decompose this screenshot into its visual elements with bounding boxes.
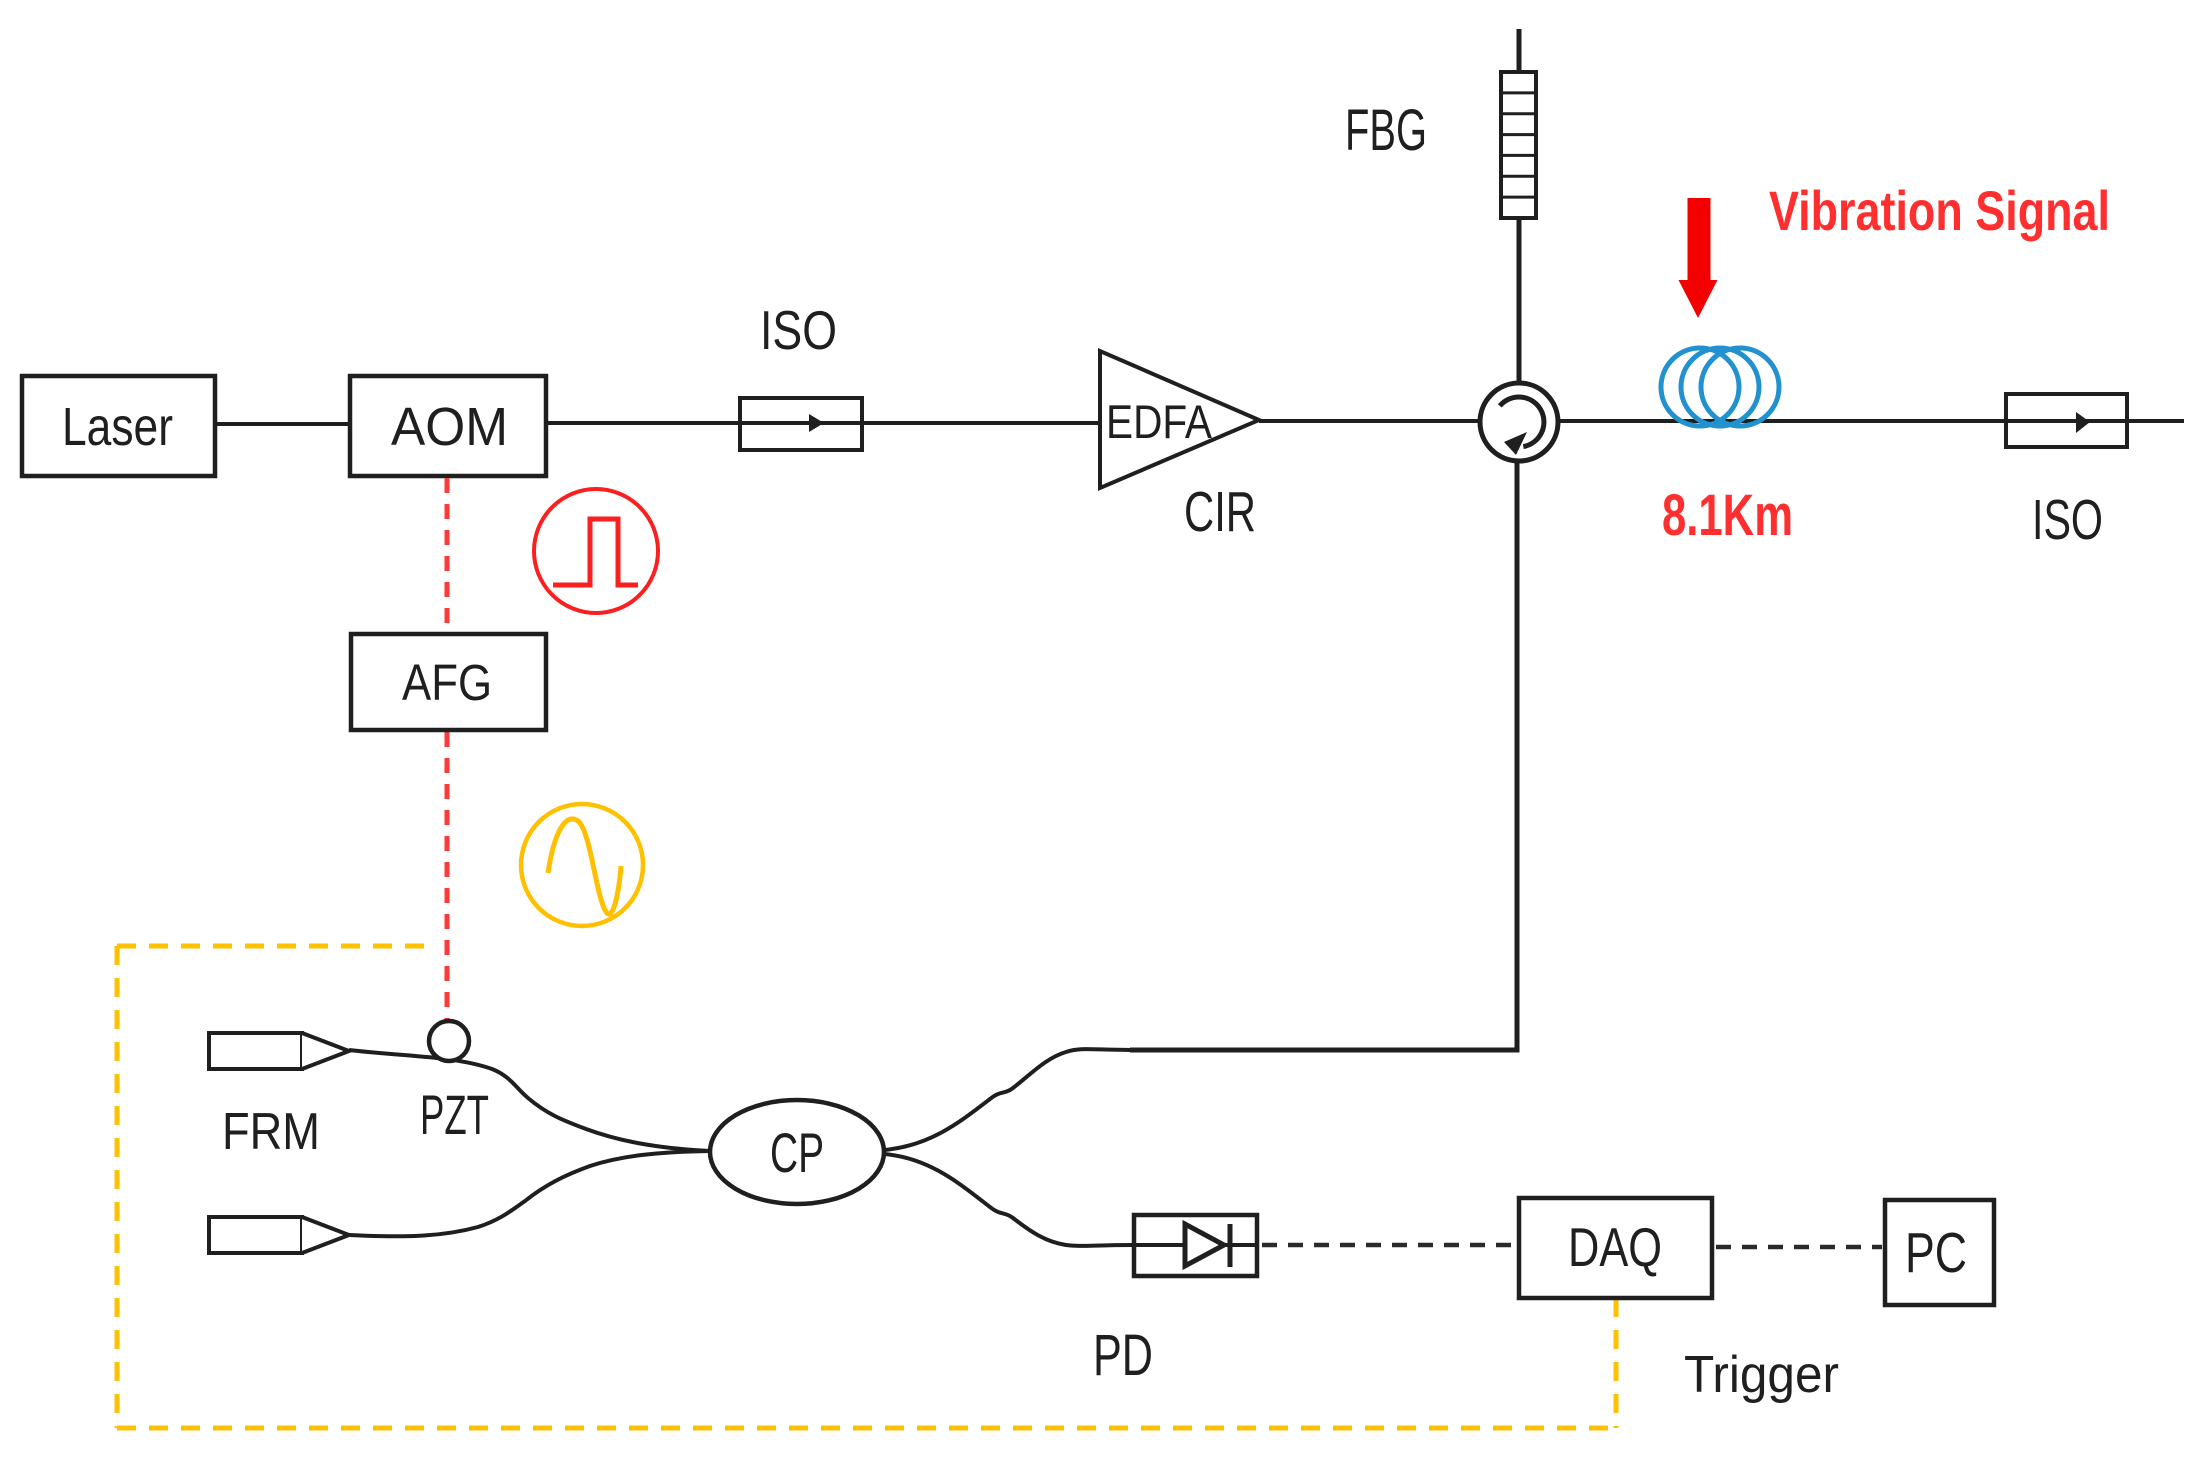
- vibration signal red arrow: [1679, 198, 1718, 318]
- red dashed control line AOM to AFG: [445, 478, 450, 632]
- svg-text:DAQ: DAQ: [1568, 1216, 1662, 1278]
- svg-text:AOM: AOM: [391, 397, 508, 457]
- yellow dashed trigger line DAQ down: [1614, 1298, 1619, 1428]
- black dashed DAQ to PC: [1716, 1245, 1882, 1250]
- svg-text:Vibration Signal: Vibration Signal: [1769, 179, 2110, 242]
- DAQ box: [1519, 1198, 1712, 1298]
- PZT circle on fiber: [429, 1021, 469, 1061]
- svg-text:Laser: Laser: [62, 397, 173, 457]
- sine wave symbol circle (yellow): [521, 804, 643, 926]
- coupler CP ellipse: [710, 1100, 884, 1204]
- fiber upper arm FRM to CP: [349, 1050, 710, 1151]
- wire circulator down to coupler branch: [1130, 460, 1517, 1050]
- arrow inside right ISO: [2076, 412, 2090, 433]
- svg-text:FBG: FBG: [1345, 98, 1427, 163]
- black dashed PD to DAQ: [1262, 1243, 1515, 1248]
- AOM box: [350, 376, 546, 476]
- yellow dashed feedback box left edge: [115, 946, 120, 1428]
- wire AOM to ISO: [546, 421, 741, 425]
- fiber coil (blue): [1661, 348, 1779, 426]
- wire top of FBG: [1517, 29, 1522, 74]
- AFG box: [351, 634, 546, 730]
- PD diode symbol: [1185, 1224, 1224, 1266]
- arrow inside left ISO: [809, 414, 824, 432]
- wire EDFA to circulator: [1259, 419, 1481, 423]
- yellow dashed feedback box top edge: [117, 944, 437, 949]
- op-amp style EDFA amplifier triangle: [1100, 351, 1259, 488]
- photodetector PD box: [1134, 1215, 1257, 1276]
- FRM lower mirror: [209, 1217, 302, 1253]
- FBG grating: [1501, 72, 1536, 218]
- Laser box: [22, 376, 215, 476]
- fiber lower arm FRM to CP: [349, 1151, 710, 1236]
- yellow dashed feedback box bottom edge: [117, 1426, 1616, 1431]
- red dashed control line AFG to PZT: [445, 732, 450, 1034]
- PD wire through: [1134, 1243, 1257, 1247]
- circulator CIR circle: [1480, 383, 1558, 461]
- wire right ISO to fiber end: [2127, 419, 2184, 423]
- fiber CP to circulator branch: [884, 1049, 1132, 1150]
- svg-text:AFG: AFG: [402, 654, 492, 711]
- svg-text:EDFA: EDFA: [1106, 395, 1213, 448]
- PC box: [1885, 1200, 1994, 1305]
- svg-text:ISO: ISO: [2032, 488, 2103, 552]
- svg-text:PD: PD: [1093, 1323, 1153, 1388]
- svg-text:PZT: PZT: [420, 1083, 489, 1146]
- isolator ISO box left: [740, 398, 862, 450]
- svg-text:CP: CP: [770, 1121, 824, 1184]
- wire Laser to AOM: [215, 422, 350, 426]
- svg-text:CIR: CIR: [1184, 480, 1256, 544]
- svg-text:FRM: FRM: [222, 1103, 320, 1161]
- isolator ISO box right: [2006, 394, 2127, 447]
- svg-text:ISO: ISO: [760, 299, 837, 361]
- wire FBG to circulator: [1517, 216, 1522, 384]
- FRM upper mirror: [209, 1033, 302, 1069]
- svg-text:Trigger: Trigger: [1684, 1346, 1839, 1404]
- circulator rotation arrow: [1500, 397, 1544, 447]
- wire ISO to EDFA: [862, 421, 1100, 425]
- svg-text:8.1Km: 8.1Km: [1662, 483, 1793, 548]
- wire circulator to right ISO: [1557, 419, 2006, 423]
- fiber CP to PD branch: [884, 1154, 1134, 1246]
- pulse symbol circle (red): [534, 489, 658, 613]
- svg-text:PC: PC: [1905, 1221, 1967, 1285]
